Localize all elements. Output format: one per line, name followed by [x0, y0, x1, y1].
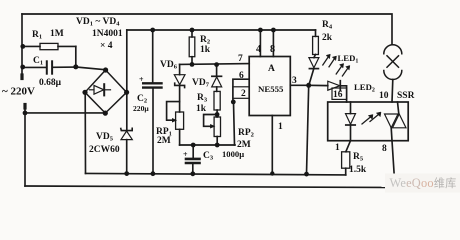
capacitor C1	[23, 61, 76, 73]
bridge rectifier VD1-VD4 diamond	[85, 70, 127, 113]
node C2 ground junction	[151, 171, 156, 176]
svg-text:1k: 1k	[196, 104, 207, 114]
svg-text:1N4001: 1N4001	[92, 29, 123, 39]
node lower 220V terminal	[23, 105, 26, 109]
svg-text:1k: 1k	[200, 45, 211, 55]
svg-text:10: 10	[379, 91, 389, 101]
wire SSR pin8 down	[392, 141, 395, 188]
relay SSR box	[328, 102, 409, 141]
svg-text:C3: C3	[203, 151, 214, 162]
node pin1 ground junction	[270, 171, 274, 175]
wire pin8	[272, 30, 274, 57]
wire 220V to bridge bottom	[25, 112, 105, 114]
svg-text:8: 8	[382, 144, 387, 154]
wire lower-left down to bottom rail	[24, 105, 26, 187]
wire pin3	[290, 84, 308, 86]
potentiometer RP1	[167, 102, 184, 145]
svg-text:VD5: VD5	[96, 132, 114, 143]
svg-text:+: +	[139, 75, 144, 84]
node pin8 V+ junction	[271, 28, 276, 33]
wire bridge left corner down to ground rail	[84, 92, 86, 173]
svg-text:~ 220V: ~ 220V	[2, 86, 35, 98]
svg-text:2M: 2M	[157, 136, 171, 146]
svg-text:WeeQoo维库: WeeQoo维库	[390, 176, 457, 190]
wire C1R1 junction to bridge top	[76, 67, 106, 70]
svg-text:1: 1	[278, 122, 283, 132]
lamp	[384, 45, 402, 102]
wire bottom rail	[25, 186, 395, 188]
svg-text:1M: 1M	[50, 29, 64, 39]
wire ground rail	[86, 173, 346, 175]
svg-text:VD6: VD6	[160, 60, 178, 71]
resistor R3	[214, 91, 220, 117]
svg-text:R4: R4	[322, 20, 333, 31]
node upper 220V terminal	[20, 75, 23, 79]
node R2 V+ junction	[190, 28, 195, 33]
node R2-pin7 junction	[190, 62, 195, 67]
capacitor C2	[143, 30, 161, 174]
node RP2 bottom junction	[215, 143, 220, 148]
wire pin4	[259, 30, 261, 57]
capacitor C3	[186, 145, 200, 174]
wire left rail	[21, 14, 23, 78]
node pin4 V+ junction	[258, 28, 263, 33]
svg-text:× 4: × 4	[100, 41, 113, 51]
diode VD7	[212, 65, 222, 92]
wire pin3 node down to ground	[307, 85, 309, 174]
node C1 left junction	[20, 65, 25, 70]
resistor R4	[313, 30, 319, 58]
svg-text:+: +	[183, 150, 188, 159]
svg-text:VD1 ~ VD4: VD1 ~ VD4	[76, 17, 120, 28]
wire bridge right corner up to V+ rail	[126, 30, 128, 92]
node 220V lower junction	[23, 111, 28, 116]
resistor R1	[23, 43, 76, 67]
svg-text:3: 3	[292, 76, 297, 86]
svg-text:SSR: SSR	[397, 91, 415, 101]
svg-text:16: 16	[333, 90, 343, 100]
node C3 ground junction	[190, 171, 195, 176]
svg-text:NE555: NE555	[258, 84, 284, 94]
svg-text:A: A	[268, 64, 275, 74]
svg-text:R2: R2	[200, 35, 210, 46]
LED SSR internal	[346, 102, 356, 141]
resistor R5	[342, 141, 351, 175]
zener VD5	[121, 92, 133, 173]
svg-text:2CW60: 2CW60	[89, 145, 120, 155]
node bridge top corner	[103, 67, 108, 72]
resistor R2	[189, 30, 195, 64]
zener VD6	[174, 64, 185, 112]
wire pins 2-6 tie	[233, 79, 249, 145]
wire top rail	[22, 14, 392, 45]
svg-text:6: 6	[239, 71, 244, 81]
pin16 label box	[332, 88, 347, 99]
potentiometer RP2	[204, 115, 221, 146]
svg-text:R1: R1	[32, 30, 45, 41]
node VD5 ground junction	[124, 171, 129, 176]
svg-text:8: 8	[270, 44, 275, 55]
svg-text:220μ: 220μ	[133, 104, 149, 113]
node C2 V+ junction	[150, 28, 155, 33]
triac SSR internal	[385, 102, 407, 141]
wire pin1	[271, 116, 273, 174]
svg-text:LED1: LED1	[338, 53, 359, 65]
node bridge bottom corner	[103, 111, 108, 116]
node pin2-6 junction	[231, 100, 236, 105]
node R3-RP2 junction	[215, 112, 220, 117]
node R1 left junction	[20, 44, 25, 49]
svg-text:VD7: VD7	[192, 78, 210, 89]
node bridge left corner	[82, 90, 87, 95]
node bridge right corner	[124, 90, 129, 95]
svg-text:R5: R5	[353, 152, 364, 163]
svg-text:LED2: LED2	[354, 82, 375, 94]
wire V+ rail	[127, 29, 316, 31]
svg-text:1: 1	[335, 143, 340, 153]
node pin3-LED junction	[306, 83, 311, 88]
node pin3-branch ground junction	[304, 172, 309, 177]
svg-text:4: 4	[256, 44, 261, 55]
LED LED2	[309, 64, 350, 103]
svg-text:C1: C1	[33, 56, 43, 67]
node C3 top junction	[191, 143, 196, 148]
svg-text:R3: R3	[197, 93, 208, 104]
SSR light arrows	[362, 112, 381, 124]
wire bottom node RP1-C3-RP2-pin2	[180, 144, 235, 146]
svg-text:C2: C2	[137, 94, 147, 105]
node VD7-pin7 junction	[214, 62, 219, 67]
watermark	[385, 174, 460, 193]
svg-text:RP2: RP2	[238, 128, 254, 139]
svg-text:2k: 2k	[322, 33, 333, 43]
svg-text:7: 7	[238, 54, 243, 64]
IC A NE555 timer box	[249, 57, 290, 116]
svg-text:2: 2	[241, 89, 246, 99]
svg-text:1000μ: 1000μ	[222, 149, 244, 159]
svg-text:1.5k: 1.5k	[349, 165, 367, 175]
wire pin7 node	[180, 63, 250, 66]
LED LED1	[309, 54, 337, 85]
node R1-C1 output junction	[73, 64, 78, 69]
svg-text:0.68μ: 0.68μ	[39, 78, 62, 88]
